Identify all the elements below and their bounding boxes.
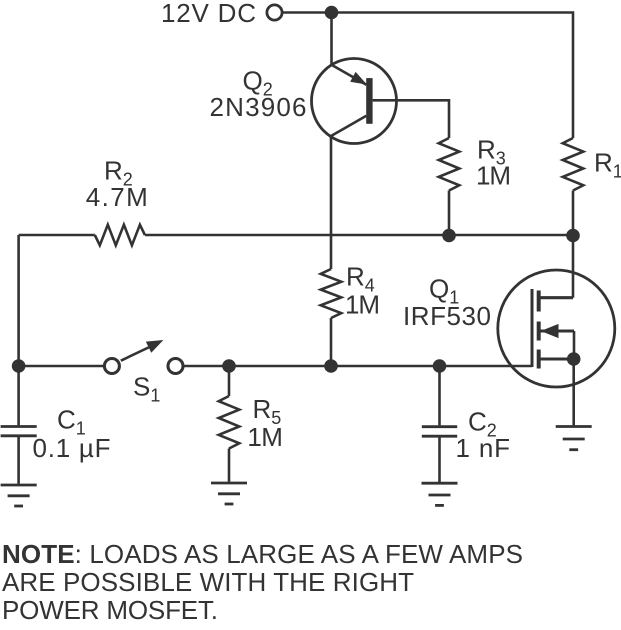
ground C1 xyxy=(1,485,37,506)
svg-text:ARE POSSIBLE WITH THE RIGHT: ARE POSSIBLE WITH THE RIGHT xyxy=(2,567,414,597)
transistor Q2 xyxy=(312,59,397,144)
capacitor C1 xyxy=(1,427,37,484)
channel segments xyxy=(537,291,541,312)
svg-text:1M: 1M xyxy=(345,289,380,319)
wire emitter feed xyxy=(330,13,333,65)
label R3 1M xyxy=(476,135,511,191)
source down xyxy=(572,359,575,425)
svg-text:0.1 µF: 0.1 µF xyxy=(33,433,111,463)
wire switch left xyxy=(19,365,104,368)
drain feed xyxy=(572,236,575,298)
node C2 xyxy=(433,359,447,373)
node R3-mid xyxy=(442,229,456,243)
wire R1 bottom xyxy=(572,191,575,236)
label R4 1M xyxy=(345,261,380,319)
resistor R1 xyxy=(563,138,584,191)
ground R5 xyxy=(211,483,247,504)
svg-text:R1: R1 xyxy=(594,148,621,182)
label C2 1nF xyxy=(456,407,511,464)
note text xyxy=(2,539,523,625)
ground C2 xyxy=(422,483,458,505)
mosfet Q1 xyxy=(498,236,615,426)
terminal circle xyxy=(267,5,282,20)
svg-text:1M: 1M xyxy=(476,161,511,191)
wire switch right to gate xyxy=(183,365,532,368)
node left switch xyxy=(12,359,26,373)
wire base lead xyxy=(373,100,449,138)
wire left rail xyxy=(17,235,20,425)
svg-text:4.7M: 4.7M xyxy=(86,182,148,212)
wire mid rail right xyxy=(145,234,573,237)
label Q2 2N3906 xyxy=(210,66,307,123)
wire collector run xyxy=(330,136,333,269)
node R4 bottom xyxy=(324,359,338,373)
capacitor C2 xyxy=(422,366,457,482)
node source-body xyxy=(567,352,581,366)
label C1 0.1uF xyxy=(33,405,111,463)
node R5 xyxy=(222,359,236,373)
svg-text:IRF530: IRF530 xyxy=(403,301,491,331)
wire R3 bottom xyxy=(448,191,451,236)
gate bar xyxy=(531,289,534,367)
source bottom lead xyxy=(539,357,574,360)
resistor R2 xyxy=(95,225,145,246)
svg-text:1M: 1M xyxy=(247,422,283,452)
label R2 4.7M xyxy=(86,156,148,213)
svg-text:2N3906: 2N3906 xyxy=(210,92,307,122)
svg-text:1 nF: 1 nF xyxy=(456,433,511,463)
node R1-mid xyxy=(566,229,580,243)
ground Q1 source xyxy=(556,427,592,450)
resistor R4 xyxy=(321,269,342,318)
label Q1 IRF530 xyxy=(403,274,491,332)
wire R4 bottom xyxy=(330,318,333,366)
svg-text:12V DC: 12V DC xyxy=(161,0,256,28)
svg-text:NOTE: LOADS AS LARGE AS A FEW: NOTE: LOADS AS LARGE AS A FEW AMPS xyxy=(2,539,523,569)
node junction top xyxy=(325,6,339,20)
switch S1 xyxy=(104,340,183,374)
resistor R3 xyxy=(439,138,460,191)
svg-text:S1: S1 xyxy=(133,372,160,406)
wire top rail xyxy=(283,13,574,139)
body line with arrow xyxy=(539,329,574,332)
wire mid rail left xyxy=(19,234,95,237)
label R5 1M xyxy=(247,394,283,452)
resistor R5 xyxy=(219,366,240,482)
drain horizontal xyxy=(539,296,573,299)
svg-text:POWER MOSFET.: POWER MOSFET. xyxy=(2,595,218,625)
